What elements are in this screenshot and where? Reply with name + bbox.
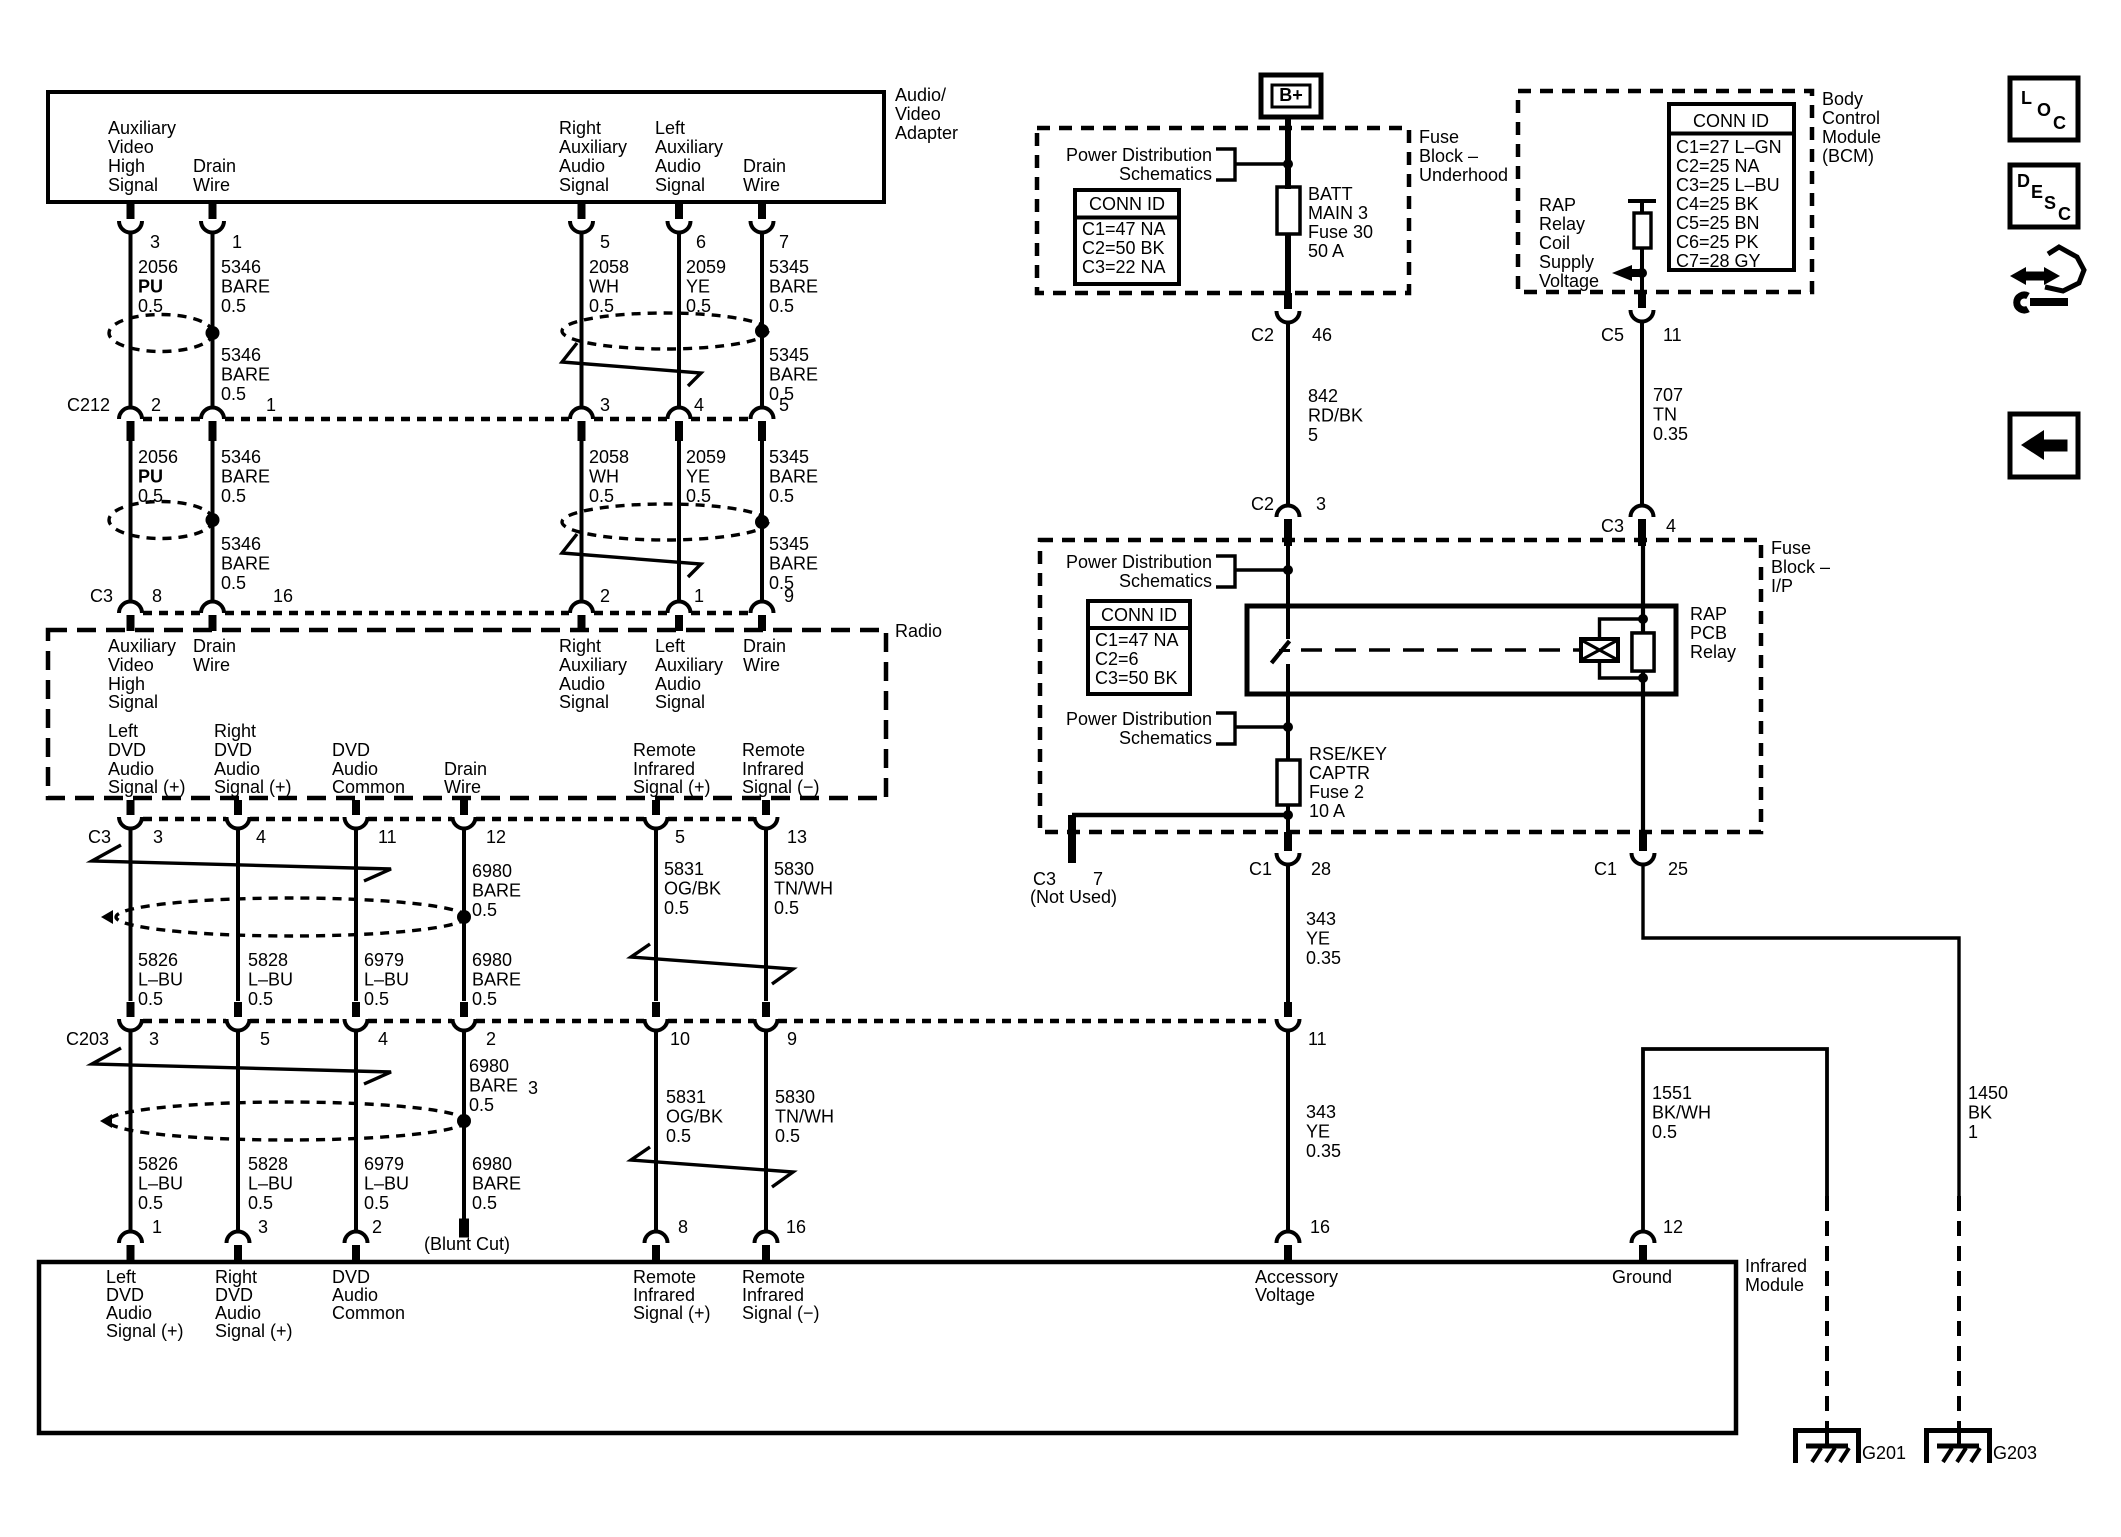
wire: 707 TN 0.35	[1640, 320, 1644, 507]
fuse: BATT MAIN 3 Fuse 30 50 A	[1277, 184, 1373, 261]
wire: 6980 blunt segment C203->module	[462, 1029, 466, 1220]
svg-text:1551: 1551	[1652, 1083, 1692, 1103]
svg-text:5345: 5345	[769, 257, 809, 277]
connector: adapter pin 3	[119, 201, 160, 252]
svg-text:Schematics: Schematics	[1119, 164, 1212, 184]
svg-text:WH: WH	[589, 466, 619, 486]
svg-text:Wire: Wire	[743, 655, 780, 675]
label: Fuse Block - Underhood	[1419, 127, 1508, 185]
connector C203 label	[66, 1029, 109, 1049]
junction dots on relay right wire	[1638, 614, 1648, 683]
module pin label: Accessory Voltage	[1255, 1267, 1338, 1305]
svg-text:4: 4	[694, 395, 704, 415]
radio pin label: Left DVD Audio Signal (+)	[108, 721, 186, 797]
svg-text:1: 1	[694, 586, 704, 606]
label: 2058 WH 0.5 (2)	[589, 447, 629, 506]
connector: infrared module pin 2	[345, 1217, 383, 1262]
connector C3 radio-bottom pin 12	[453, 800, 507, 847]
svg-text:2056: 2056	[138, 447, 178, 467]
svg-text:0.5: 0.5	[1652, 1122, 1677, 1142]
reference: Power Distribution Schematics (underhood)	[1066, 145, 1286, 184]
svg-text:BARE: BARE	[221, 466, 270, 486]
svg-text:Audio: Audio	[106, 1303, 152, 1323]
svg-text:0.5: 0.5	[138, 1193, 163, 1213]
svg-text:Adapter: Adapter	[895, 123, 958, 143]
svg-text:Block –: Block –	[1419, 146, 1478, 166]
svg-text:DVD: DVD	[108, 740, 146, 760]
label: Fuse Block - I/P	[1771, 538, 1830, 596]
wire: 5830 segment C203->module	[764, 1029, 768, 1233]
svg-text:High: High	[108, 674, 145, 694]
svg-text:C1=47 NA: C1=47 NA	[1082, 219, 1166, 239]
wire: 343 YE 0.35 lower	[1286, 1029, 1290, 1233]
svg-text:Block –: Block –	[1771, 557, 1830, 577]
connector: infrared module pin 1	[119, 1217, 162, 1262]
svg-text:Auxiliary: Auxiliary	[655, 655, 723, 675]
svg-text:(Blunt Cut): (Blunt Cut)	[424, 1234, 510, 1254]
svg-text:TN/WH: TN/WH	[775, 1106, 834, 1126]
junction: C3-7 branch dot	[1283, 810, 1293, 820]
wire: 6979 L-BU segment radio->C203	[354, 827, 358, 1001]
svg-text:16: 16	[1310, 1217, 1330, 1237]
label: 343 YE 0.35 (upper)	[1306, 909, 1341, 968]
label: RAP Relay Coil Supply Voltage	[1539, 195, 1599, 291]
svg-text:0.5: 0.5	[472, 1193, 497, 1213]
radio pin label: Remote Infrared Signal (-)	[742, 740, 820, 797]
dashed harness line at C203 (extends to fuse block wire)	[143, 1019, 1266, 1024]
svg-text:2059: 2059	[686, 257, 726, 277]
svg-text:BARE: BARE	[472, 1173, 521, 1193]
svg-text:6980: 6980	[472, 950, 512, 970]
table: CONN ID (BCM)	[1669, 104, 1794, 271]
resistor: RAP relay coil supply (BCM internal)	[1634, 213, 1651, 248]
label: 5831 OG/BK 0.5 (2)	[666, 1087, 723, 1146]
icon: back arrow box	[2010, 414, 2078, 477]
svg-text:Power Distribution: Power Distribution	[1066, 709, 1212, 729]
svg-text:0.5: 0.5	[248, 1193, 273, 1213]
svg-text:3: 3	[153, 827, 163, 847]
wire: 2059 YE 0.5 segment 1	[677, 231, 681, 409]
svg-text:Signal: Signal	[655, 175, 705, 195]
box: Body Control Module BCM (dashed)	[1518, 91, 1812, 292]
wire: 842 RD/BK 5	[1286, 321, 1290, 507]
svg-text:1: 1	[232, 232, 242, 252]
dashed drop to G201	[1825, 1196, 1829, 1428]
connector C3 (radio top) label	[90, 586, 113, 606]
svg-text:5828: 5828	[248, 1154, 288, 1174]
icon: repair/double-arrow squiggle	[2010, 247, 2084, 310]
svg-text:Audio: Audio	[655, 156, 701, 176]
svg-text:C1=27 L–GN: C1=27 L–GN	[1676, 137, 1782, 157]
svg-text:5831: 5831	[664, 859, 704, 879]
wire: RAP relay feed through relay box	[1641, 546, 1645, 832]
svg-text:Remote: Remote	[742, 1267, 805, 1287]
label: 6980 BARE 3 0.5 (above splice)	[469, 1056, 538, 1115]
svg-text:PU: PU	[138, 276, 163, 296]
svg-text:343: 343	[1306, 909, 1336, 929]
svg-text:YE: YE	[686, 276, 710, 296]
svg-text:5828: 5828	[248, 950, 288, 970]
svg-text:Infrared: Infrared	[633, 1285, 695, 1305]
module pin label: Ground	[1612, 1267, 1672, 1287]
svg-text:C7=28 GY: C7=28 GY	[1676, 251, 1761, 271]
label: 2059 YE 0.5	[686, 257, 726, 316]
svg-text:1: 1	[152, 1217, 162, 1237]
svg-text:5346: 5346	[221, 257, 261, 277]
svg-text:C1: C1	[1249, 859, 1272, 879]
svg-text:25: 25	[1668, 859, 1688, 879]
svg-text:0.5: 0.5	[364, 1193, 389, 1213]
svg-text:Audio: Audio	[655, 674, 701, 694]
svg-text:Module: Module	[1745, 1275, 1804, 1295]
svg-text:2056: 2056	[138, 257, 178, 277]
svg-text:G201: G201	[1862, 1443, 1906, 1463]
svg-text:5830: 5830	[775, 1087, 815, 1107]
svg-text:3: 3	[528, 1078, 538, 1098]
dashed harness line at radio bottom C3	[143, 817, 754, 822]
svg-text:5: 5	[260, 1029, 270, 1049]
svg-text:2: 2	[486, 1029, 496, 1049]
svg-text:Signal: Signal	[108, 692, 158, 712]
label: 5345 BARE 0.5 (2)	[769, 447, 818, 506]
svg-text:Right: Right	[214, 721, 256, 741]
svg-text:Signal (+): Signal (+)	[214, 777, 292, 797]
svg-text:1450: 1450	[1968, 1083, 2008, 1103]
wire: 5828 L-BU segment radio->C203	[236, 827, 240, 1001]
label: 2056 PU 0.5 (2)	[138, 447, 178, 506]
svg-text:5345: 5345	[769, 345, 809, 365]
connector: module pin 16 (accessory voltage)	[1277, 1217, 1331, 1262]
label: 1450 BK 1	[1968, 1083, 2008, 1142]
wire: 5830 TN/WH segment radio->C203	[764, 827, 768, 1001]
radio pin label: Left Auxiliary Audio Signal	[655, 636, 723, 712]
svg-text:Underhood: Underhood	[1419, 165, 1508, 185]
svg-text:Auxiliary: Auxiliary	[108, 636, 176, 656]
junction: B+ branch dot	[1283, 159, 1293, 169]
box: Infrared Module	[39, 1262, 1736, 1433]
svg-text:DVD: DVD	[332, 1267, 370, 1287]
svg-text:0.5: 0.5	[769, 296, 794, 316]
svg-text:BARE: BARE	[221, 276, 270, 296]
svg-text:16: 16	[786, 1217, 806, 1237]
svg-text:5: 5	[779, 395, 789, 415]
icon: LOC box	[2010, 78, 2078, 140]
svg-text:Common: Common	[332, 1303, 405, 1323]
svg-text:C2=25 NA: C2=25 NA	[1676, 156, 1760, 176]
svg-text:0.5: 0.5	[138, 989, 163, 1009]
svg-text:BARE: BARE	[221, 364, 270, 384]
svg-text:PCB: PCB	[1690, 623, 1727, 643]
wire: 5831 segment C203->module	[654, 1029, 658, 1233]
junction: drain splice 6980 (upper)	[457, 910, 471, 924]
svg-text:5346: 5346	[221, 447, 261, 467]
svg-text:Power Distribution: Power Distribution	[1066, 145, 1212, 165]
svg-text:L–BU: L–BU	[138, 1173, 183, 1193]
label: C3 7 (Not Used)	[1030, 869, 1117, 907]
svg-text:0.5: 0.5	[769, 486, 794, 506]
connector: infrared module pin 3	[227, 1217, 269, 1262]
svg-text:Audio: Audio	[559, 156, 605, 176]
svg-text:46: 46	[1312, 325, 1332, 345]
svg-text:BK/WH: BK/WH	[1652, 1102, 1711, 1122]
wire: fuse to C1 edge	[1286, 805, 1290, 832]
svg-text:Fuse 30: Fuse 30	[1308, 222, 1373, 242]
junction + arrow to Voltage label	[1612, 265, 1647, 281]
svg-text:13: 13	[787, 827, 807, 847]
reference: Power Distribution Schematics (I/P lower)	[1066, 709, 1286, 748]
svg-text:Audio: Audio	[332, 759, 378, 779]
wire: into relay	[1286, 546, 1290, 639]
label: 5826 L-BU 0.5	[138, 950, 183, 1009]
icon: DESC box	[2010, 165, 2078, 227]
svg-text:Remote: Remote	[742, 740, 805, 760]
table: CONN ID (underhood)	[1075, 190, 1179, 284]
svg-text:5826: 5826	[138, 1154, 178, 1174]
svg-text:Drain: Drain	[743, 636, 786, 656]
svg-text:C3: C3	[90, 586, 113, 606]
relay switch contact	[1272, 641, 1291, 663]
svg-text:1: 1	[1968, 1122, 1978, 1142]
svg-text:10 A: 10 A	[1309, 801, 1345, 821]
svg-text:CAPTR: CAPTR	[1309, 763, 1370, 783]
svg-text:6979: 6979	[364, 1154, 404, 1174]
svg-text:MAIN 3: MAIN 3	[1308, 203, 1368, 223]
twisted quad ellipse (DVD group lower)	[100, 1102, 466, 1140]
wire: drain 5346 segment 2	[211, 441, 215, 602]
junction: drain splice (left pair lower)	[206, 513, 220, 527]
twist arrow (IR pair lower)	[631, 1147, 793, 1187]
svg-text:5345: 5345	[769, 447, 809, 467]
label: 5346 BARE 0.5 (below splice)	[221, 345, 270, 404]
svg-text:0.5: 0.5	[774, 898, 799, 918]
connector: adapter pin 7	[751, 201, 790, 252]
svg-text:C4=25 BK: C4=25 BK	[1676, 194, 1759, 214]
wire: 6980 BARE segment radio->C203	[462, 827, 466, 1001]
wire: drain 5345 segment 1	[760, 231, 764, 409]
svg-text:CONN ID: CONN ID	[1101, 605, 1177, 625]
svg-text:4: 4	[378, 1029, 388, 1049]
svg-text:9: 9	[787, 1029, 797, 1049]
svg-text:0.5: 0.5	[138, 296, 163, 316]
svg-text:11: 11	[378, 827, 397, 847]
svg-text:707: 707	[1653, 385, 1683, 405]
svg-text:(BCM): (BCM)	[1822, 146, 1874, 166]
connector C1 pin 25	[1594, 832, 1688, 879]
svg-text:Signal (+): Signal (+)	[633, 777, 711, 797]
label: 2059 YE 0.5 (2)	[686, 447, 726, 506]
svg-text:2: 2	[600, 586, 610, 606]
svg-text:Voltage: Voltage	[1255, 1285, 1315, 1305]
radio pin label: Right DVD Audio Signal (+)	[214, 721, 292, 797]
svg-text:Fuse 2: Fuse 2	[1309, 782, 1364, 802]
wire: drain 5345 segment 2	[760, 441, 764, 602]
svg-text:Wire: Wire	[743, 175, 780, 195]
wire: BCM internal to resistor	[1640, 201, 1644, 213]
twist arrow (IR pair upper)	[631, 944, 793, 984]
svg-text:Left: Left	[655, 636, 685, 656]
svg-text:Wire: Wire	[193, 175, 230, 195]
svg-text:DVD: DVD	[332, 740, 370, 760]
svg-text:6979: 6979	[364, 950, 404, 970]
label: 5831 OG/BK 0.5	[664, 859, 721, 918]
svg-text:Infrared: Infrared	[1745, 1256, 1807, 1276]
svg-text:C6=25 PK: C6=25 PK	[1676, 232, 1759, 252]
svg-text:Wire: Wire	[444, 777, 481, 797]
svg-text:C2: C2	[1251, 325, 1274, 345]
svg-text:Audio: Audio	[559, 674, 605, 694]
svg-text:TN/WH: TN/WH	[774, 878, 833, 898]
svg-text:Drain: Drain	[193, 156, 236, 176]
svg-text:Signal: Signal	[655, 692, 705, 712]
svg-text:L–BU: L–BU	[138, 969, 183, 989]
svg-text:Audio: Audio	[332, 1285, 378, 1305]
wire: 6979 segment C203->module	[354, 1029, 358, 1233]
dashed harness line at C212	[143, 417, 750, 422]
twisted pair ellipse (right trio lower)	[562, 504, 768, 540]
svg-text:5: 5	[600, 232, 610, 252]
radio pin label: Auxiliary Video High Signal	[108, 636, 176, 712]
twist arrow (right trio upper)	[562, 343, 701, 386]
svg-text:0.5: 0.5	[666, 1126, 691, 1146]
wire: 2056 PU 0.5 segment 1	[129, 231, 133, 409]
svg-text:PU: PU	[138, 466, 163, 486]
svg-text:S: S	[2044, 193, 2056, 213]
label: 2058 WH 0.5	[589, 257, 629, 316]
svg-text:0.5: 0.5	[472, 989, 497, 1009]
svg-text:842: 842	[1308, 386, 1338, 406]
svg-text:L–BU: L–BU	[248, 1173, 293, 1193]
svg-text:3: 3	[150, 232, 160, 252]
svg-text:3: 3	[1316, 494, 1326, 514]
connector C3 radio-bottom pin 13	[755, 800, 808, 847]
connector C212 pin 1	[201, 395, 276, 441]
svg-text:0.5: 0.5	[664, 898, 689, 918]
svg-text:E: E	[2031, 182, 2043, 202]
connector C212 label	[67, 395, 110, 415]
svg-text:6980: 6980	[472, 861, 512, 881]
svg-text:BARE: BARE	[472, 969, 521, 989]
svg-text:11: 11	[1663, 325, 1682, 345]
svg-text:3: 3	[149, 1029, 159, 1049]
blunt cut end cap on 6980	[424, 1219, 510, 1254]
svg-text:0.35: 0.35	[1653, 424, 1688, 444]
svg-text:Signal: Signal	[108, 175, 158, 195]
label: Body Control Module (BCM)	[1822, 89, 1881, 166]
svg-text:6980: 6980	[472, 1154, 512, 1174]
connector C203 pin 9	[755, 1002, 798, 1049]
connector C3 radio-top pin 2	[570, 586, 610, 631]
label: 842 RD/BK 5	[1308, 386, 1363, 445]
connector C212 pin 2	[119, 395, 161, 441]
module pin label: Left DVD Audio Signal (+)	[106, 1267, 184, 1341]
svg-text:C3=22 NA: C3=22 NA	[1082, 257, 1166, 277]
svg-text:9: 9	[784, 586, 794, 606]
label: 6979 L-BU 0.5	[364, 950, 409, 1009]
wire: 1551 BK/WH run	[1643, 1049, 1827, 1233]
svg-text:0.5: 0.5	[364, 989, 389, 1009]
svg-text:C5: C5	[1601, 325, 1624, 345]
svg-text:Drain: Drain	[444, 759, 487, 779]
twist arrow (DVD group lower)	[92, 1048, 391, 1084]
svg-text:YE: YE	[686, 466, 710, 486]
dashed drop to G203	[1957, 1196, 1961, 1428]
svg-text:3: 3	[258, 1217, 268, 1237]
connector C1 pin 28	[1249, 832, 1331, 879]
svg-text:Schematics: Schematics	[1119, 728, 1212, 748]
wire: 2058 WH segment 2	[580, 441, 584, 602]
label: RAP PCB Relay	[1690, 604, 1736, 662]
svg-text:Auxiliary: Auxiliary	[559, 655, 627, 675]
svg-text:Infrared: Infrared	[742, 1285, 804, 1305]
svg-text:Audio: Audio	[108, 759, 154, 779]
wire: fuse output to box edge	[1285, 234, 1291, 293]
svg-text:Auxiliary: Auxiliary	[108, 118, 176, 138]
ground G203	[1927, 1426, 2038, 1463]
svg-text:Ground: Ground	[1612, 1267, 1672, 1287]
svg-text:0.5: 0.5	[221, 573, 246, 593]
label: 5345 BARE 0.5 (below splice)	[769, 345, 818, 404]
svg-text:2058: 2058	[589, 257, 629, 277]
svg-text:5346: 5346	[221, 534, 261, 554]
radio pin label: Remote Infrared Signal (+)	[633, 740, 711, 797]
connector C3 pin 4	[1601, 506, 1676, 546]
svg-text:DVD: DVD	[214, 740, 252, 760]
connector: module pin 12 (ground)	[1632, 1217, 1684, 1262]
label: 6980 BARE 0.5 (below splice)	[472, 950, 521, 1009]
svg-text:5346: 5346	[221, 345, 261, 365]
radio pin label: DVD Audio Common	[332, 740, 405, 797]
svg-text:CONN ID: CONN ID	[1089, 194, 1165, 214]
svg-text:Video: Video	[895, 104, 941, 124]
label: 6980 BARE 0.5 (2)	[472, 1154, 521, 1213]
connector C3 radio-top pin 1	[668, 586, 705, 631]
svg-text:5: 5	[1308, 425, 1318, 445]
fuse: RSE/KEY CAPTR Fuse 2 10 A	[1277, 744, 1387, 821]
svg-text:Relay: Relay	[1539, 214, 1585, 234]
svg-text:D: D	[2017, 171, 2030, 191]
svg-text:B+: B+	[1279, 85, 1303, 105]
twisted quad ellipse (DVD group upper)	[101, 898, 466, 936]
module pin label: Remote Infrared Signal (+)	[633, 1267, 711, 1323]
svg-text:Coil: Coil	[1539, 233, 1570, 253]
svg-text:8: 8	[152, 586, 162, 606]
svg-text:Wire: Wire	[193, 655, 230, 675]
connector C203 pin 4	[345, 1002, 389, 1049]
connector C3 radio-bottom pin 3	[119, 800, 163, 847]
junction: drain splice (left pair upper)	[206, 326, 220, 340]
label: 5830 TN/WH 0.5	[774, 859, 833, 918]
svg-text:Common: Common	[332, 777, 405, 797]
svg-text:0.5: 0.5	[775, 1126, 800, 1146]
svg-text:Signal (−): Signal (−)	[742, 1303, 820, 1323]
svg-text:0.5: 0.5	[686, 486, 711, 506]
wire: B+ feed into fuse block	[1285, 117, 1291, 189]
twisted pair ellipse (left pair lower)	[109, 502, 213, 539]
svg-text:Voltage: Voltage	[1539, 271, 1599, 291]
svg-text:O: O	[2037, 100, 2051, 120]
label: 343 YE 0.35 (lower)	[1306, 1102, 1341, 1161]
svg-text:C203: C203	[66, 1029, 109, 1049]
svg-text:12: 12	[1663, 1217, 1683, 1237]
svg-text:0.5: 0.5	[221, 296, 246, 316]
connector: infrared module pin 16	[755, 1217, 807, 1262]
connector C3 radio-top pin 9	[751, 586, 795, 631]
svg-text:C3=25 L–BU: C3=25 L–BU	[1676, 175, 1780, 195]
connector C3 (radio bottom) label	[88, 827, 111, 847]
relay coil symbol (box with X)	[1581, 639, 1618, 661]
inline connector pin 11 (accessory)	[1277, 1002, 1327, 1049]
box: Fuse Block - I/P (dashed)	[1040, 540, 1761, 832]
